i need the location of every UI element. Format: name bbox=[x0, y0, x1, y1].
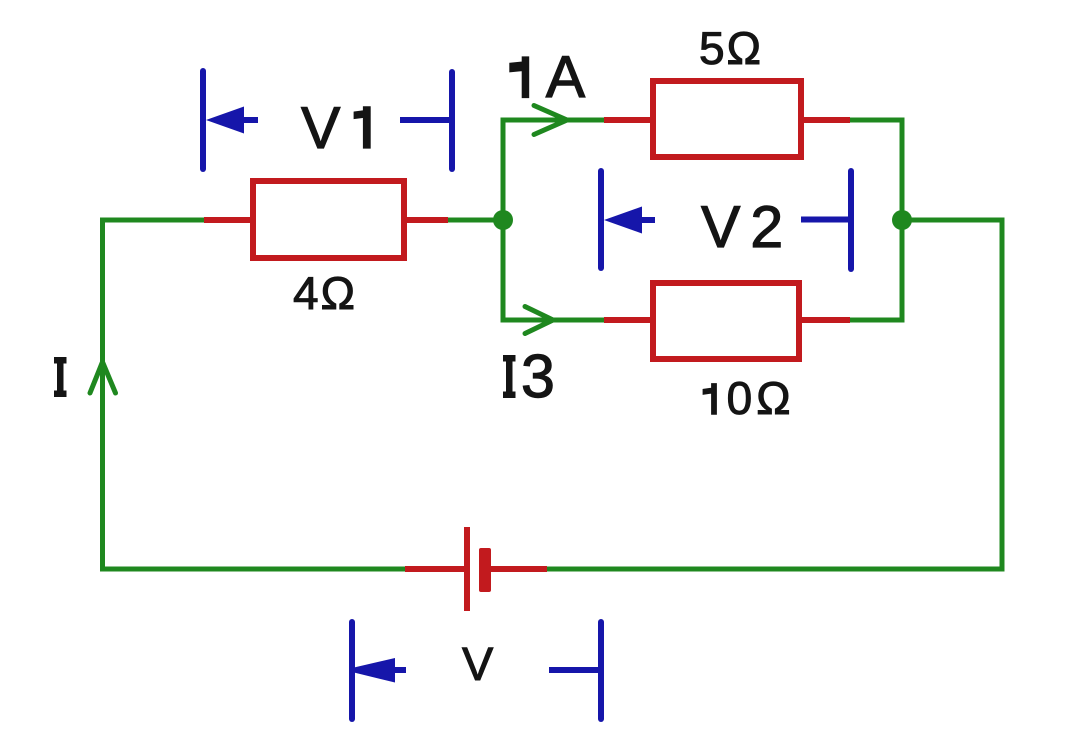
voltmeter V: arrow tail bbox=[395, 667, 406, 673]
wire: bottom horizontal right green segment bbox=[547, 567, 1005, 572]
voltmeter V: left bar bbox=[349, 622, 355, 719]
resistor R3 10ohm: body bbox=[653, 283, 799, 359]
battery V: short thick plate bbox=[479, 548, 491, 592]
voltmeter V1: left bar bbox=[200, 71, 206, 169]
voltmeter V: arrow head (points left) bbox=[354, 658, 395, 683]
resistor R1 4ohm: body bbox=[253, 181, 404, 258]
voltmeter V1: right horizontal line bbox=[400, 117, 452, 123]
wire: top branch green before R2 bbox=[503, 118, 606, 123]
voltmeter V2: arrow head (points left) bbox=[604, 207, 642, 234]
wire: bottom branch green after R3 bbox=[848, 318, 905, 323]
wire: node A down to bottom branch bbox=[501, 220, 506, 323]
ammeter label I3 on bottom branch: serif I drawn bbox=[503, 355, 516, 398]
wire: bottom horizontal left green segment bbox=[100, 567, 405, 572]
voltmeter V1 name label bbox=[301, 107, 370, 148]
resistor R3 10ohm: right lead bbox=[802, 317, 850, 323]
current arrow 1A (right) on top branch bbox=[534, 106, 567, 135]
resistor R2 value label 5ohm bbox=[701, 32, 759, 65]
voltmeter V1: right bar bbox=[449, 72, 455, 169]
resistor R3 value label 10ohm bbox=[703, 382, 789, 415]
voltmeter V: right horizontal line bbox=[549, 667, 601, 673]
current arrow I (up) on left wire bbox=[90, 362, 116, 393]
wire: top-left horizontal green from corner to R1 lead bbox=[100, 218, 206, 223]
voltmeter V2: right horizontal line bbox=[801, 217, 851, 223]
resistor R1 4ohm: left lead bbox=[204, 217, 250, 223]
current label I on left wire: serif I drawn bbox=[54, 357, 67, 397]
resistor R1 value label 4ohm bbox=[294, 277, 353, 309]
voltmeter V2: right bar bbox=[848, 171, 854, 269]
node A junction dot bbox=[493, 210, 513, 230]
resistor R3 10ohm: left lead bbox=[604, 317, 650, 323]
wire: left vertical (node A top-left corner to bottom-left corner) bbox=[100, 218, 105, 570]
battery V: left lead bbox=[405, 566, 464, 572]
voltmeter V1: arrow tail bbox=[243, 117, 258, 123]
resistor R2 5ohm: left lead bbox=[604, 117, 650, 123]
wire: right branch vertical top (R2 to node B) bbox=[900, 118, 905, 221]
resistor R2 5ohm: body bbox=[653, 81, 801, 157]
wire: right branch vertical bottom (R3 to node B) bbox=[900, 220, 905, 323]
voltmeter V2 name label bbox=[701, 206, 780, 247]
battery V: right lead bbox=[490, 566, 547, 572]
wire: node A up to top branch bbox=[501, 118, 506, 223]
resistor R1 4ohm: right lead bbox=[407, 217, 448, 223]
voltmeter V1: arrow head (points left) bbox=[206, 107, 244, 134]
wire: top branch green after R2 bbox=[848, 118, 905, 123]
node B junction dot bbox=[892, 210, 912, 230]
resistor R2 5ohm: right lead bbox=[804, 117, 850, 123]
wire: node B to right vertical bbox=[902, 218, 1005, 223]
voltmeter V name label bbox=[462, 648, 493, 680]
ammeter label 1A on top branch bbox=[510, 56, 585, 97]
voltmeter V: right bar bbox=[598, 622, 604, 719]
wire: bottom branch green before R3 bbox=[503, 318, 606, 323]
wire: green between R1 right lead and node A bbox=[446, 218, 503, 223]
wire: right vertical bbox=[1000, 220, 1005, 572]
voltmeter V2: left bar bbox=[598, 171, 604, 268]
battery V: long thin plate bbox=[464, 527, 470, 611]
current arrow I3 (right) on bottom branch bbox=[525, 307, 553, 334]
ammeter label I3: digit 3 bbox=[523, 354, 552, 397]
voltmeter V2: arrow tail bbox=[641, 217, 655, 223]
